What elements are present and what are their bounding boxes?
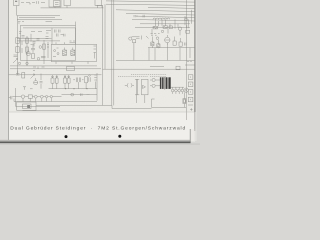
tuner shield box upper <box>52 28 76 44</box>
lower mid wire B <box>62 94 98 96</box>
mid short line <box>150 65 164 67</box>
left row node circle s1 <box>34 95 37 98</box>
tube V1 internals <box>26 50 30 54</box>
top bus line H3 <box>41 7 104 9</box>
bottom right bus rise <box>152 99 155 107</box>
resistor R2 <box>16 47 19 53</box>
mid-left rail <box>26 36 28 66</box>
resistor R5 <box>26 38 29 43</box>
right cluster resistor R10 hatched <box>157 44 160 48</box>
right bus H4 <box>148 7 196 8</box>
lower mid group1 resistor pair <box>51 75 58 83</box>
heater pin circle 2 <box>175 89 178 92</box>
heater pin circle 1 <box>171 89 174 92</box>
upper box caps C2 <box>55 30 61 33</box>
box B2 inner marks <box>55 3 59 5</box>
lower mid right rail <box>96 73 98 101</box>
left cluster resistor R15 <box>22 73 25 78</box>
wire A junction dot 2 <box>73 88 74 89</box>
lamp circle with cross <box>184 88 188 92</box>
right row drops <box>152 10 192 36</box>
below-card background <box>0 143 200 145</box>
bottom low line <box>23 110 61 112</box>
transformer core lines <box>163 77 166 90</box>
left row node circle s3 <box>45 95 47 97</box>
component box N2 <box>133 40 136 43</box>
scanner background <box>0 0 200 145</box>
page right edge line lower part <box>193 112 196 131</box>
bottom right bus <box>152 106 187 108</box>
left bus H16 <box>17 40 60 42</box>
left block bottom bus <box>9 74 102 76</box>
left edge capacitor <box>9 96 12 100</box>
arrow mark on left rail <box>13 59 18 64</box>
right row extra box <box>186 30 190 33</box>
box B1 inner dash <box>15 0 17 2</box>
left margin strip <box>0 0 8 145</box>
bottom bus step <box>111 105 113 108</box>
svg-text:Dual Gebrüder Steidinger · 7: Dual Gebrüder Steidinger · 7M2 St.George… <box>10 125 186 131</box>
terminal strip bottom tick <box>188 104 193 106</box>
top right bus H1 <box>106 1 196 2</box>
lower mid bottom ties <box>137 95 145 103</box>
right mid small parts <box>136 36 149 40</box>
right cluster small circle <box>156 37 159 40</box>
sheet lower boundary <box>9 111 195 113</box>
mid right tiny label <box>187 61 192 63</box>
scan grain texture <box>9 0 196 112</box>
cable line with terminals <box>135 79 139 95</box>
right row resistor R14 hatched <box>163 26 168 29</box>
left cluster comp arrow <box>31 74 35 79</box>
pickup box inner <box>23 104 32 109</box>
resistor R1 <box>16 38 19 44</box>
bus small marks <box>33 67 45 71</box>
heater pin circle 3 <box>178 89 181 92</box>
left row resistor R16 <box>28 95 32 98</box>
top component T1 <box>97 6 104 8</box>
left row node circle s2 <box>40 95 43 98</box>
bus line mid2 <box>10 68 101 70</box>
page left edge line <box>7 0 10 141</box>
lower box ticks <box>53 41 96 59</box>
transformer winding bar 2 <box>162 77 164 89</box>
registration dot right <box>118 135 121 138</box>
right cluster tube V2 <box>165 37 170 42</box>
top edge tick marks row <box>21 1 45 4</box>
wire A junction dot 1 <box>65 88 66 89</box>
right row small node <box>161 30 163 32</box>
right edge small marks <box>190 108 195 111</box>
circle row drop ticks <box>14 98 51 102</box>
bus node circle a <box>18 62 20 64</box>
top box at mid T2 <box>95 0 102 5</box>
left row node circle big <box>21 95 24 98</box>
capacitor C1 ticks <box>14 55 18 56</box>
registration dot left <box>65 135 68 138</box>
right cluster resistor R12 <box>179 42 182 46</box>
schematic drawing area tint <box>9 0 196 112</box>
mid right short line <box>185 64 195 66</box>
mains plug pin upper <box>152 78 155 81</box>
top right node circle <box>185 18 188 21</box>
lower mid group1 top circles <box>52 76 54 78</box>
lower mid group4 circle <box>89 75 91 77</box>
right parts row H17 <box>140 23 190 25</box>
tuner outer box inner top line <box>23 27 52 29</box>
lower mid group2 top circles <box>64 76 66 78</box>
mid long rectangle bottom line <box>103 68 196 70</box>
left vertical rail <box>17 16 19 75</box>
top right bus H2 <box>106 4 196 5</box>
plug leads <box>150 80 160 86</box>
left bus H8a <box>17 18 62 20</box>
top edge component box B3 <box>64 0 71 6</box>
bottom bus right segment <box>112 108 152 110</box>
motor marks <box>143 85 146 88</box>
small circle node <box>37 58 40 61</box>
page right edge line <box>194 0 195 112</box>
right row extra resistor <box>169 26 172 29</box>
node circle N1 <box>129 37 132 40</box>
bus H7 left end components <box>134 15 144 18</box>
right cluster drops to mid bar <box>155 43 190 61</box>
bottom right corner edge line <box>189 129 192 142</box>
lower box small parts left <box>54 50 56 52</box>
pickup inner mark <box>27 105 30 108</box>
small parts near top of rail <box>33 42 36 47</box>
small box on mid line <box>176 66 180 70</box>
lower mid group3 capacitor pair <box>73 78 83 83</box>
right row node circle <box>178 27 181 30</box>
fuse body <box>183 99 186 104</box>
transformer winding bar 4 <box>168 77 170 89</box>
lower mid wire A drops <box>53 82 96 89</box>
right bus under cluster <box>148 47 196 49</box>
tuner shield box lower <box>51 44 96 61</box>
pickup box bottom left outer <box>17 102 36 110</box>
lamp to fuse wire <box>183 92 185 107</box>
vertical pair VA <box>103 4 106 69</box>
mid long rectangle top line <box>116 59 196 61</box>
box B2 inner box <box>54 1 61 7</box>
left bus H15 <box>17 37 52 39</box>
lower mid left rail <box>102 69 104 105</box>
connector plug symbol <box>125 83 134 87</box>
fuse inner <box>184 99 186 102</box>
terminal strip dots <box>190 76 192 100</box>
right parts row H18 <box>135 27 190 29</box>
transformer winding bar 3 <box>166 77 168 89</box>
upper box parts row <box>57 34 66 37</box>
transformer winding bar 1 <box>160 77 162 89</box>
resistor R7 <box>32 54 35 59</box>
right cluster cap C5 <box>185 43 187 46</box>
tube V2 internals <box>165 35 170 45</box>
page right edge sliver <box>195 0 197 141</box>
right bus H5 <box>116 10 196 12</box>
resistor R8 <box>43 44 46 49</box>
lower box pins <box>56 42 88 64</box>
left row wire <box>13 96 62 98</box>
lower mid wire C <box>14 101 97 103</box>
label subscript mark <box>29 3 31 5</box>
cluster extra ticks <box>22 32 43 54</box>
right bus H8b with choke <box>132 19 196 21</box>
mains plug pin lower <box>152 84 155 87</box>
top edge component box B2 <box>49 0 61 7</box>
heater pin circle 4 <box>181 89 184 92</box>
lower box small parts left2 <box>57 53 59 55</box>
motor box <box>142 79 149 95</box>
resistor R4 hatched <box>71 50 75 56</box>
left row node circle s4 <box>50 95 52 97</box>
right row resistor R13 hatched <box>153 26 158 29</box>
upper box side ticks <box>46 22 53 39</box>
choke L1 bumps <box>153 18 170 19</box>
vertical pair VB <box>112 0 114 105</box>
left tiny label marks row1 <box>18 22 24 24</box>
mid-left tube V1 <box>26 52 30 56</box>
left cluster small marks under <box>23 87 33 90</box>
tiny marks near N2 <box>132 37 150 61</box>
bottom bus left segment <box>36 104 112 106</box>
bus line mid1 <box>10 65 97 67</box>
right bus H6 <box>126 13 196 15</box>
mid-left rail2 <box>43 40 45 64</box>
left cluster comp a <box>16 71 20 76</box>
lower mid group2 resistor pair <box>64 75 71 83</box>
capacitor C4 <box>41 57 46 58</box>
wire A junction dot 3 <box>86 88 87 89</box>
top edge component box B1 <box>14 0 20 6</box>
bottom card edge dark line <box>0 142 191 144</box>
right cluster resistor R9 hatched <box>151 42 154 46</box>
schematic page sheet <box>9 0 196 142</box>
lower mid column marks <box>94 75 96 85</box>
tube V3 internals <box>34 78 38 83</box>
lower mid wire B ticks <box>81 93 90 96</box>
left tiny label marks row2 <box>19 32 22 34</box>
bottom right corner edge <box>191 129 195 141</box>
lower mid wire A <box>49 88 98 90</box>
right row cap C6 <box>187 25 188 28</box>
tuner outer box <box>21 25 76 60</box>
lower mid group4 resistor <box>85 77 91 83</box>
terminal strip outer rail <box>186 0 188 120</box>
bus node circle b <box>26 62 28 64</box>
cluster extra vertical x48 <box>47 42 49 58</box>
right cluster ties <box>152 37 180 49</box>
right bus H7 <box>136 16 196 18</box>
left bus H10 <box>19 17 55 19</box>
left bus H9 <box>17 15 60 17</box>
small rect module <box>67 67 75 71</box>
capacitor C3 <box>31 45 35 53</box>
left lower cluster rail <box>16 88 60 107</box>
resistor R3 hatched <box>63 50 67 56</box>
resistor R6 <box>26 47 29 52</box>
top boxes drop wires <box>17 6 76 26</box>
heater pin ticks <box>170 87 184 94</box>
right cluster resistor R11 <box>173 41 176 45</box>
dashed label row mid <box>118 74 166 76</box>
cluster extra circle <box>39 46 42 49</box>
left cluster tube V3 <box>34 81 38 85</box>
left cluster parts right of tube <box>40 74 43 89</box>
right row dashes <box>151 33 160 35</box>
bottom card shadow soft <box>0 140 191 142</box>
terminal strip boxes <box>188 75 193 102</box>
lower mid wire B node circle <box>71 93 74 96</box>
